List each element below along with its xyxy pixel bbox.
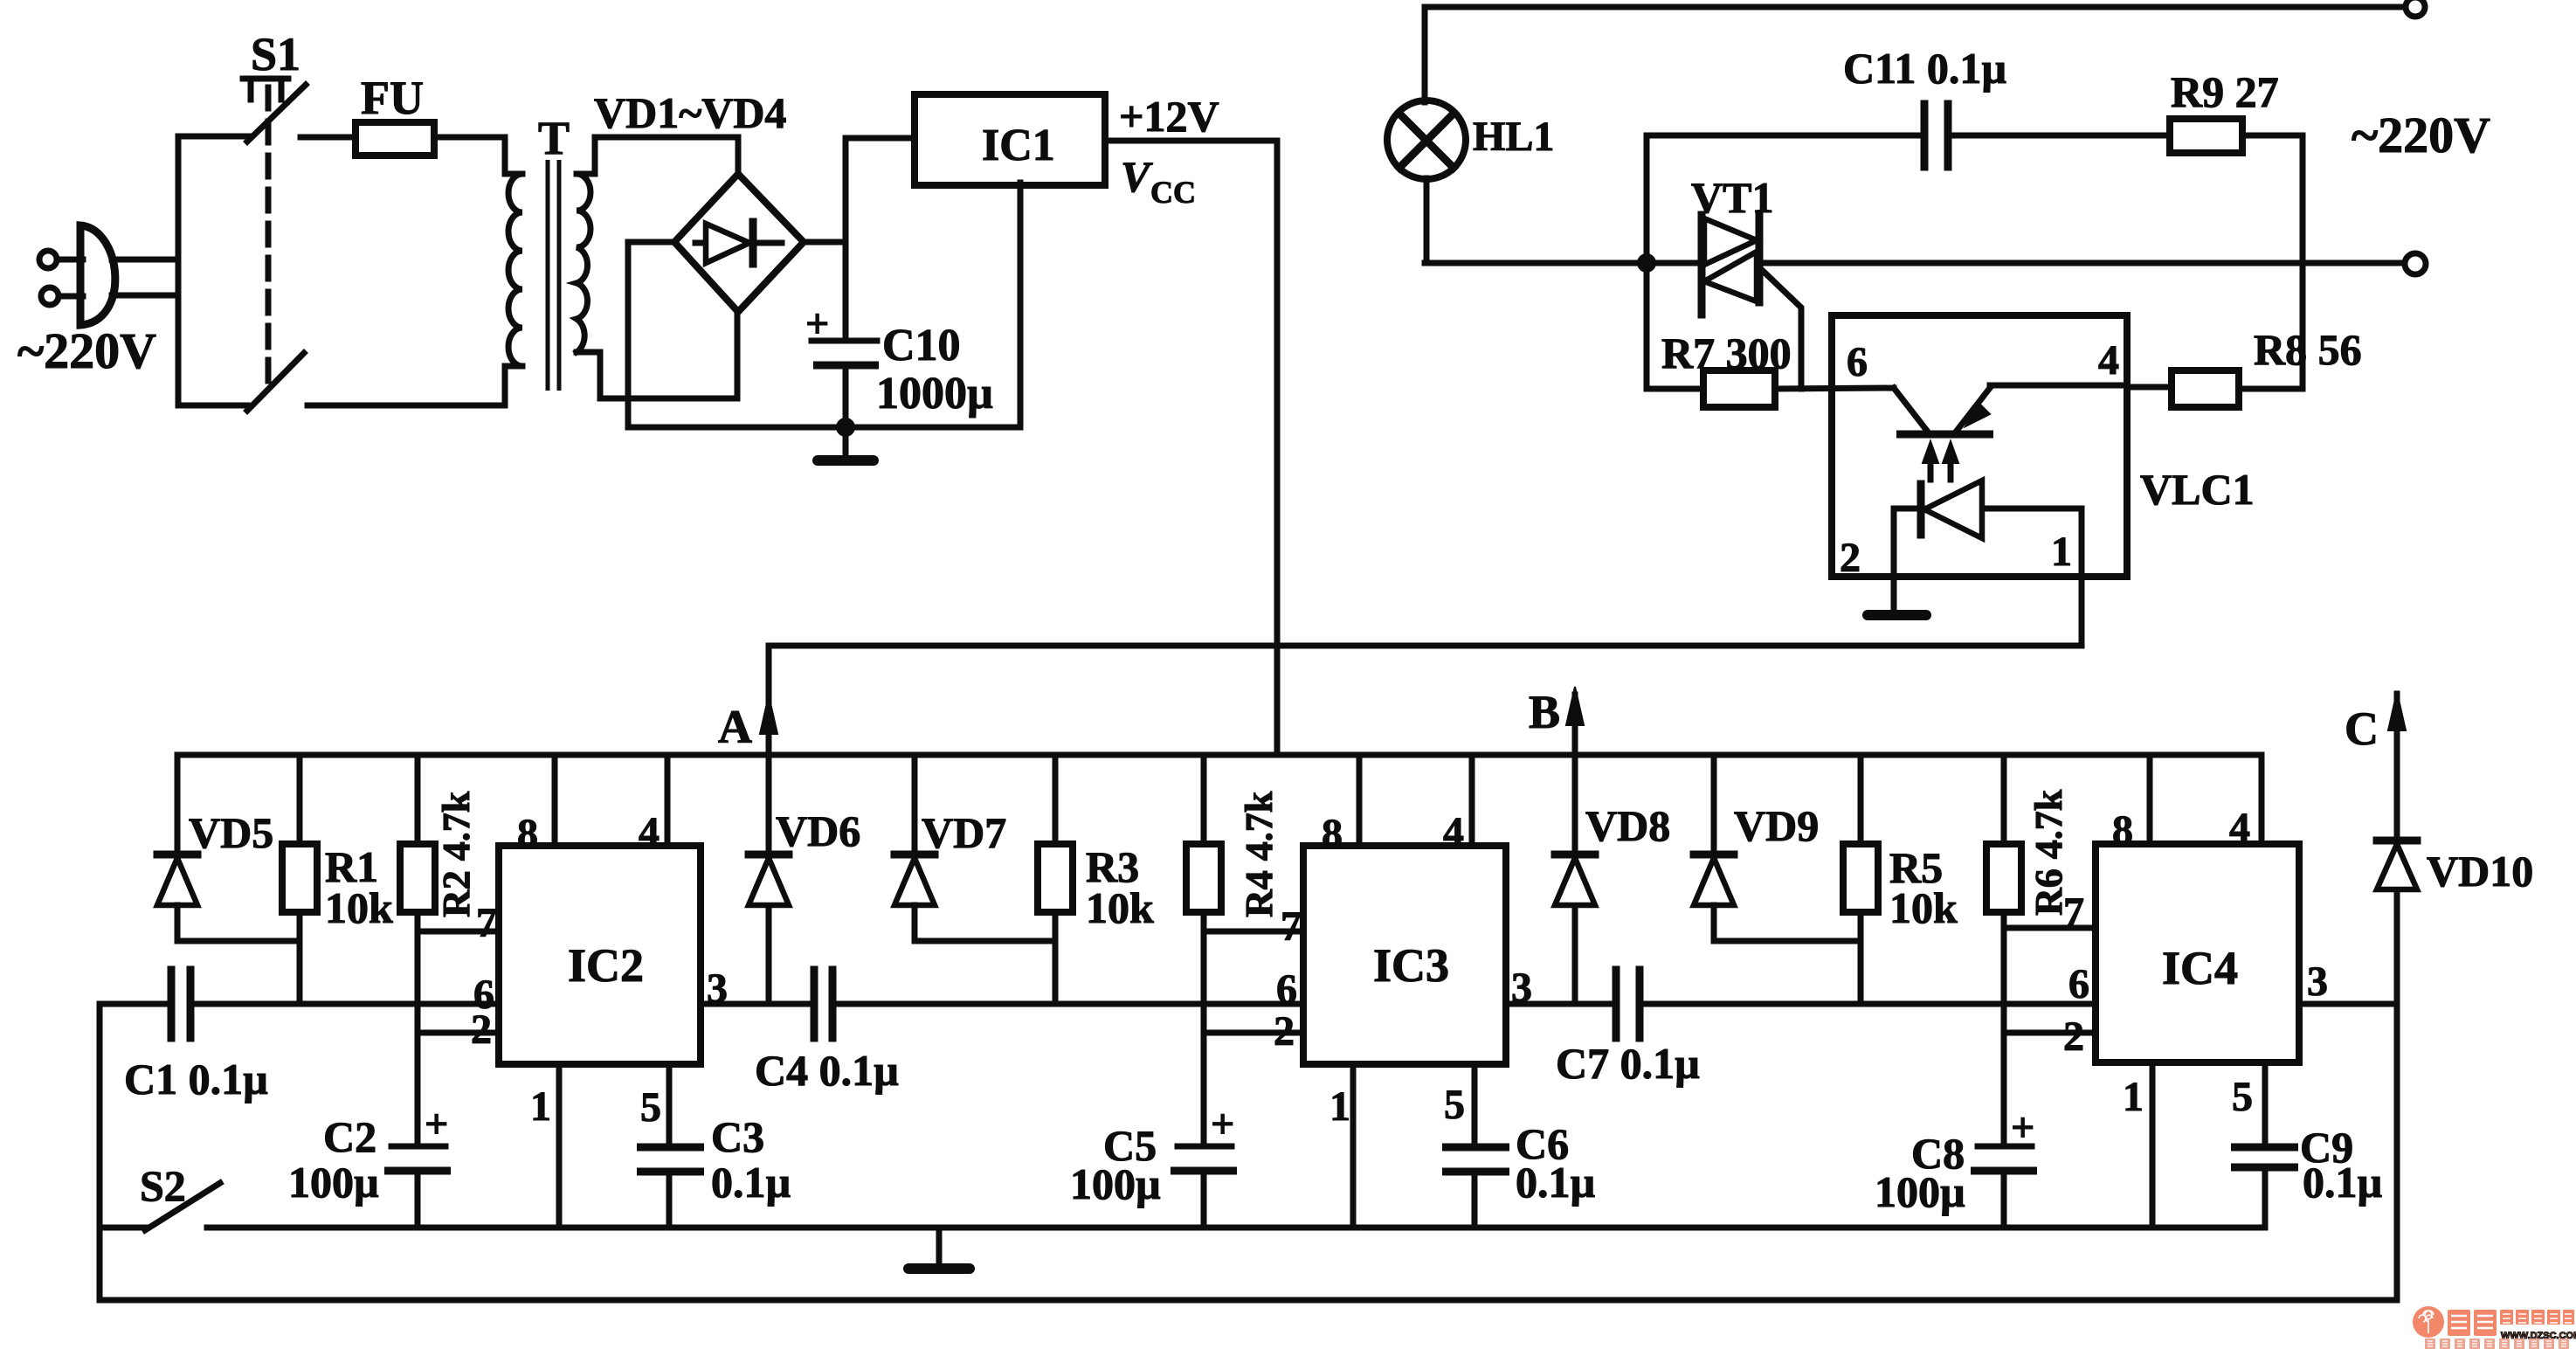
- wire IC2 pin2: [418, 1030, 499, 1036]
- capacitor C1 0.1µ: [100, 970, 190, 1038]
- svg-text:7: 7: [476, 900, 497, 946]
- svg-text:R9 27: R9 27: [2171, 67, 2279, 116]
- svg-text:R7 300: R7 300: [1661, 329, 1792, 377]
- svg-text:IC4: IC4: [2162, 942, 2238, 994]
- svg-text:R2 4.7k: R2 4.7k: [435, 791, 478, 917]
- wire C11 to R9: [1948, 133, 2170, 139]
- wire secondary top to bridge: [577, 137, 738, 174]
- plug P (mains plug symbol): [39, 225, 115, 325]
- wire C7 to IC4 pin6: [1640, 1001, 2096, 1007]
- switch S2: [100, 1183, 220, 1230]
- svg-text:6: 6: [2068, 961, 2089, 1007]
- svg-text:5: 5: [2232, 1074, 2253, 1120]
- svg-text:6: 6: [1276, 966, 1297, 1013]
- diode VD9: [1694, 755, 1861, 941]
- capacitor C9 0.1µ: [2231, 1147, 2298, 1225]
- IC4: [2096, 844, 2299, 1062]
- wire IC2 pin4: [665, 755, 671, 846]
- svg-text:8: 8: [517, 811, 538, 857]
- svg-text:C3: C3: [711, 1112, 764, 1161]
- wire secondary bottom to bridge: [577, 312, 737, 398]
- triac VT1: [1702, 215, 1801, 389]
- svg-text:100µ: 100µ: [1875, 1167, 1965, 1216]
- svg-text:VLC1: VLC1: [2140, 465, 2255, 514]
- IC2: [499, 846, 701, 1064]
- capacitor C5 100µ: [1171, 1101, 1237, 1225]
- capacitor C2 100µ: [384, 1101, 451, 1225]
- wire R8 to right vertical: [2239, 386, 2303, 392]
- node junction dot main rail: [1638, 254, 1655, 272]
- transformer T primary winding: [505, 174, 522, 366]
- svg-text:C2: C2: [323, 1112, 376, 1161]
- wire IC3 pin2: [1204, 1030, 1303, 1036]
- resistor R4 4.7k: [1186, 755, 1221, 1146]
- svg-text:C10: C10: [882, 321, 961, 370]
- wire branch up from rail: [1644, 135, 1650, 263]
- svg-text:10k: 10k: [1889, 883, 1958, 932]
- wire C4 to IC3 pin6: [832, 1001, 1303, 1007]
- svg-text:2: 2: [471, 1007, 492, 1053]
- optocoupler VLC1 box: [1832, 315, 2127, 577]
- node terminal top right: [2406, 0, 2425, 17]
- svg-text:~220V: ~220V: [2352, 107, 2490, 163]
- svg-text:S1: S1: [251, 28, 300, 80]
- wire IC2 pin3 out: [701, 1001, 813, 1007]
- svg-text:1: 1: [1329, 1083, 1350, 1130]
- svg-text:VD10: VD10: [2427, 847, 2533, 896]
- node junction dot at C10 ground: [837, 419, 854, 436]
- wire VLC1 pin1 down and long wire to node A: [769, 577, 2082, 646]
- svg-text:1: 1: [2051, 529, 2072, 575]
- svg-text:7: 7: [1281, 903, 1302, 950]
- svg-text:0.1µ: 0.1µ: [1516, 1158, 1595, 1207]
- wire bottom outer line: [100, 1297, 2397, 1304]
- svg-text:1: 1: [530, 1083, 551, 1130]
- svg-text:VT1: VT1: [1691, 173, 1773, 222]
- svg-text:5: 5: [1444, 1082, 1465, 1128]
- ground (power supply): [818, 427, 874, 460]
- resistor R6 4.7k: [1986, 755, 2021, 1146]
- svg-text:VD6: VD6: [776, 806, 860, 855]
- svg-text:HL1: HL1: [1473, 114, 1554, 160]
- capacitor C7 0.1µ: [1616, 970, 1640, 1038]
- wire IC2 pin8: [552, 755, 558, 846]
- switch S1: [243, 79, 306, 411]
- svg-text:R4 4.7k: R4 4.7k: [1238, 791, 1281, 917]
- svg-text:T: T: [538, 112, 570, 164]
- svg-text:FU: FU: [361, 72, 424, 124]
- regulator IC1: [915, 94, 1105, 185]
- svg-text:IC3: IC3: [1373, 939, 1449, 992]
- ground (bottom bus): [908, 1228, 970, 1269]
- svg-text:2: 2: [1274, 1008, 1295, 1055]
- svg-text:B: B: [1529, 686, 1560, 738]
- wire IC1 output +12V: [1105, 138, 1277, 144]
- wire IC4 pin8: [2147, 755, 2153, 844]
- svg-text:10k: 10k: [325, 883, 393, 932]
- wire plug to left rail lower: [112, 293, 178, 299]
- wire S1 lower to transformer: [178, 366, 505, 405]
- IC3: [1303, 846, 1506, 1064]
- capacitor C6 0.1µ: [1442, 1147, 1509, 1225]
- node terminal right: [2405, 253, 2426, 274]
- wire IC2 pin1: [556, 1064, 563, 1225]
- capacitor C8 100µ: [1971, 1104, 2037, 1225]
- wire to C11: [1647, 133, 1922, 139]
- svg-text:VD9: VD9: [1734, 801, 1819, 850]
- capacitor C3 0.1µ: [637, 1147, 704, 1225]
- wire R7 to opto pin 6: [1775, 388, 1894, 389]
- diode VD10 on node C line: [2377, 841, 2417, 1004]
- resistor R2 4.7k: [400, 755, 435, 1146]
- wire IC4 pin7: [2004, 925, 2096, 931]
- wire C1 to IC2 pin6: [190, 1001, 499, 1007]
- wire plug to left rail: [112, 257, 178, 263]
- capacitor C4 0.1µ: [814, 970, 832, 1038]
- svg-text:1: 1: [2123, 1074, 2144, 1120]
- wire IC4 pin2: [2004, 1030, 2096, 1036]
- diode VD6 on node A line: [749, 854, 789, 1004]
- svg-text:0.1µ: 0.1µ: [711, 1158, 791, 1207]
- svg-text:6: 6: [1847, 339, 1868, 385]
- bridge rectifier VD1~VD4: [674, 174, 804, 312]
- phototransistor of VLC1: [1894, 385, 2127, 434]
- resistor R3 10k: [1038, 755, 1073, 1004]
- svg-text:3: 3: [707, 965, 728, 1012]
- wire top rail: [1425, 4, 2405, 10]
- svg-text:VD7: VD7: [922, 808, 1006, 857]
- diode VD7: [894, 755, 1055, 941]
- svg-text:+: +: [2011, 1104, 2034, 1151]
- svg-text:8: 8: [1322, 811, 1343, 857]
- svg-text:+: +: [425, 1101, 448, 1147]
- wire left rail vertical: [176, 136, 182, 405]
- diode VD5: [157, 755, 300, 941]
- wire VD10 line down to bottom right corner: [2394, 1004, 2400, 1300]
- svg-text:+: +: [1211, 1101, 1234, 1147]
- svg-text:C: C: [2345, 702, 2379, 755]
- wire IC4 pin1: [2150, 1062, 2156, 1225]
- capacitor C10 1000µ: [805, 301, 879, 427]
- transformer T secondary winding: [577, 174, 590, 352]
- watermark logo: [2413, 1306, 2576, 1349]
- wire S1 to FU: [300, 135, 356, 141]
- transformer T core: [546, 160, 550, 391]
- svg-text:10k: 10k: [1086, 883, 1154, 932]
- svg-text:7: 7: [2063, 889, 2084, 936]
- diode VD8 on node B line: [1555, 854, 1595, 1004]
- svg-text:100µ: 100µ: [1070, 1159, 1161, 1208]
- node B: [1566, 687, 1584, 854]
- resistor R5 10k: [1843, 755, 1878, 1004]
- svg-text:4: 4: [2098, 337, 2119, 384]
- svg-text:C1 0.1µ: C1 0.1µ: [124, 1055, 268, 1103]
- node A: [760, 646, 777, 854]
- wire IC3 pin3 out: [1506, 1001, 1613, 1007]
- svg-text:VD8: VD8: [1585, 801, 1670, 850]
- fuse FU: [356, 122, 434, 156]
- svg-text:4: 4: [639, 809, 660, 855]
- svg-text:R8 56: R8 56: [2254, 325, 2362, 374]
- svg-text:C11 0.1µ: C11 0.1µ: [1843, 44, 2006, 93]
- svg-text:C7 0.1µ: C7 0.1µ: [1556, 1039, 1700, 1088]
- wire IC4 pin3 out: [2299, 1001, 2397, 1007]
- wire IC4 pin4 (bus end drop): [2259, 755, 2265, 844]
- wire top rail to S1: [178, 134, 249, 140]
- svg-text:5: 5: [640, 1084, 661, 1131]
- wire pin4 to R8: [2127, 384, 2172, 391]
- wire +12V drop vertical: [1274, 141, 1281, 755]
- svg-text:1000µ: 1000µ: [876, 369, 993, 419]
- resistor R8 56: [2172, 370, 2239, 407]
- wire bridge left corner down to ground line: [628, 242, 674, 427]
- wire IC4 pin5: [2262, 1062, 2269, 1147]
- wire C10 vertical upper: [846, 138, 915, 341]
- svg-text:3: 3: [2307, 958, 2328, 1005]
- resistor R7 300: [1703, 370, 1775, 407]
- wire IC2 pin5: [666, 1064, 673, 1147]
- wire IC2 pin7: [418, 929, 499, 935]
- svg-text:100µ: 100µ: [288, 1158, 379, 1207]
- svg-text:C4 0.1µ: C4 0.1µ: [755, 1046, 899, 1095]
- resistor R1 10k: [282, 755, 317, 1004]
- svg-text:V: V: [1121, 152, 1153, 201]
- wire left rail down: [97, 1004, 103, 1300]
- svg-text:IC1: IC1: [982, 121, 1055, 170]
- svg-text:0.1µ: 0.1µ: [2303, 1158, 2382, 1207]
- wire IC1 ground pin: [1018, 183, 1024, 427]
- svg-text:+12V: +12V: [1119, 92, 1219, 141]
- svg-text:VD1~VD4: VD1~VD4: [594, 88, 786, 137]
- lamp HL1: [1387, 7, 1466, 263]
- svg-text:2: 2: [2063, 1013, 2084, 1060]
- wire FU to transformer: [434, 137, 505, 174]
- wire rail junction down to R7: [1647, 263, 1703, 389]
- svg-text:4: 4: [1443, 809, 1464, 855]
- LED of VLC1: [1894, 481, 2082, 577]
- svg-text:3: 3: [1511, 965, 1532, 1011]
- ground (VLC1 pin 2): [1868, 577, 1926, 615]
- wire IC3 pin7: [1204, 929, 1303, 935]
- svg-text:A: A: [718, 701, 752, 753]
- wire R9 to right vertical: [2242, 135, 2303, 389]
- wire IC3 pin4: [1469, 755, 1475, 846]
- wire +12V bus: [177, 752, 2262, 758]
- svg-text:IC2: IC2: [568, 939, 644, 992]
- wire bridge right to C10 rail: [804, 239, 846, 246]
- svg-text:4: 4: [2229, 805, 2250, 851]
- svg-text:CC: CC: [1150, 175, 1196, 210]
- wire main rail: [1425, 260, 1703, 266]
- svg-text:8: 8: [2112, 807, 2133, 854]
- wire IC3 pin8: [1357, 755, 1363, 846]
- wire ground bus: [207, 1225, 2265, 1231]
- svg-text:~220V: ~220V: [17, 322, 156, 379]
- resistor R9 27: [2170, 119, 2242, 153]
- light arrows: [1923, 441, 1958, 480]
- wire bottom ground line to IC1 pin: [628, 425, 1020, 431]
- svg-text:2: 2: [1840, 535, 1861, 581]
- wire IC3 pin1: [1350, 1064, 1357, 1225]
- wire IC3 pin5: [1472, 1064, 1478, 1147]
- capacitor C11 0.1µ: [1924, 104, 1948, 167]
- svg-text:+: +: [805, 301, 829, 347]
- node C: [2388, 692, 2406, 841]
- svg-text:VD5: VD5: [189, 808, 273, 857]
- svg-text:S2: S2: [140, 1161, 186, 1210]
